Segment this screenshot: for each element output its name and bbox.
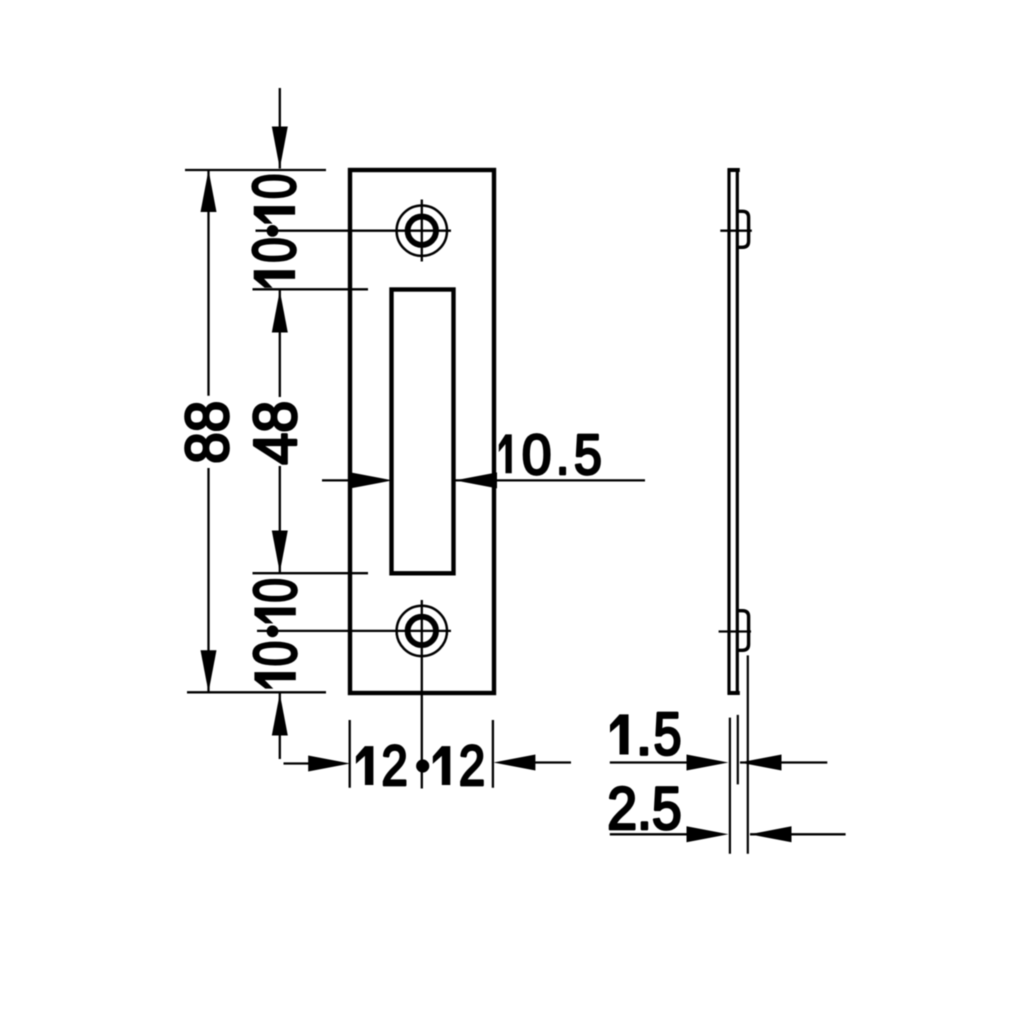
svg-text:5: 5 [574,423,602,486]
bottom screw hole outer circle [397,606,447,656]
bottom screw hole inner ring [408,617,436,645]
svg-text:0: 0 [522,423,552,486]
svg-text:0: 0 [241,174,308,199]
dimension line 2.5 right tail [750,833,846,835]
dimension line 2.5 left [610,833,689,835]
arrowhead 1.5 right pointing left [740,755,782,771]
extension line 12.12 right [492,720,494,788]
arrowhead 12.12 left pointing right [308,756,350,772]
arrowhead 10.5 left pointing right [351,472,393,488]
label 1.5 [610,714,629,754]
extension line top edge [185,169,326,171]
bottom hole horizontal centerline [257,630,451,632]
label 10 upper of top 10.10 [254,206,295,224]
label 12 right of 12.12 [433,746,451,785]
side view bottom lug centerline [719,630,751,632]
plate outline (front view) [350,170,494,693]
side view left face line [727,169,730,695]
dimension line 48 lower segment [279,466,281,573]
dimension line 48 upper segment [279,291,281,398]
svg-text:0: 0 [242,578,309,602]
arrowhead 10.5 right pointing left [455,472,497,488]
dimension line 10.5 left stem [322,479,352,481]
arrowhead 1.5 left pointing right [687,755,729,771]
side view top lug centerline [720,230,752,232]
arrowhead 12.12 right pointing left [493,755,535,771]
extension line bottom edge [187,691,326,693]
extension line thickness left [729,718,731,854]
top hole vertical centerline [421,200,423,262]
label 10.5 [499,434,512,473]
arrowhead 2.5 left pointing right [687,826,729,842]
side view top edge cap [728,168,740,172]
svg-text:48: 48 [242,401,309,465]
label 10 lower of top 10.10 [254,270,295,288]
arrowhead 48 top pointing up [272,291,288,333]
side view right face line [736,169,739,695]
label 12 left of 12.12 [356,746,374,785]
arrowhead 2.5 right pointing left [750,826,792,842]
top screw hole inner ring [408,217,436,245]
top hole horizontal centerline [256,230,452,232]
extension line slot top [253,288,369,290]
svg-text:0: 0 [242,641,309,666]
svg-text:2: 2 [459,734,485,798]
dimension line 88 lower segment [207,468,209,692]
svg-text:2.5: 2.5 [607,775,682,842]
arrowhead 88 bottom pointing down [201,650,217,692]
latch slot [392,290,454,574]
dot of 12.12 [416,759,429,772]
dimension line 12.12 right stem [535,761,571,763]
top screw hole outer circle [397,206,447,256]
extension line slot bottom [253,572,369,574]
outside arrow stem below bottom edge [279,694,281,760]
dimension line 88 upper segment [207,170,209,396]
arrowhead 48 bottom pointing down [272,531,288,573]
outside arrow stem above top edge [279,88,281,169]
dimension line 1.5 right tail [740,761,827,763]
side view top lug bump [737,211,748,247]
dimension line 12.12 left stem [284,762,311,764]
arrowhead outside bottom pointing up [272,694,288,736]
side view bottom edge cap [728,691,740,695]
dot of top 10.10 [267,225,279,237]
svg-text:0: 0 [241,237,308,262]
side view bottom lug bump [737,611,748,651]
svg-text:.: . [636,701,653,768]
svg-text:2: 2 [382,734,408,798]
arrowhead 88 top pointing up [201,170,217,212]
svg-text:88: 88 [174,401,241,464]
dot of bottom 10.10 [267,625,279,637]
dimension line 10.5 right stem [455,479,645,481]
bottom hole vertical centerline extended to 12.12 dimension [421,600,423,789]
extension line 12.12 left [349,720,351,788]
arrowhead outside top pointing down [272,127,288,169]
svg-text:.: . [556,423,570,486]
svg-text:5: 5 [654,701,682,768]
extension line lug depth [747,655,749,853]
dimension line 1.5 left [610,761,689,763]
extension line thickness middle [737,715,739,785]
